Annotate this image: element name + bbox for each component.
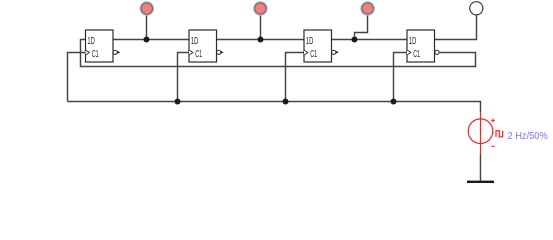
probe P3 lamp (high, red) — [362, 3, 373, 14]
probe P2 lamp (high, red) — [255, 3, 266, 14]
svg-text:1D: 1D — [409, 36, 416, 47]
D flip-flop U4 body — [407, 30, 435, 62]
svg-text:1D: 1D — [87, 36, 94, 47]
node: junction of probe P1 on net Q1 — [144, 37, 150, 43]
svg-text:1D: 1D — [306, 36, 313, 47]
U1 inverted output bubble — [113, 50, 117, 54]
U3 inverted output bubble — [332, 50, 336, 54]
U1 inverted output stub arrow — [117, 51, 120, 54]
node: junction of U3 clock branch on clock bus — [283, 99, 289, 105]
wire: clock branch to U2 C1 input — [178, 53, 190, 102]
wire: clock branch to U3 C1 input — [286, 53, 305, 102]
svg-text:C1: C1 — [195, 49, 202, 60]
U2 inverted output bubble — [217, 50, 221, 54]
U3 clock edge triangle — [304, 50, 308, 55]
U4 clock edge triangle — [407, 50, 411, 55]
wire: net Q3 from U3 Q to U4 D — [332, 39, 408, 41]
U1 clock edge triangle — [86, 50, 90, 55]
wire: net Q2 from U2 Q to U3 D — [217, 39, 305, 41]
wire: net Q1 from U1 Q to U2 D — [113, 39, 189, 41]
probe P1 lamp (high, red) — [141, 3, 152, 14]
wire: clock branch to U4 C1 input — [394, 53, 408, 102]
node: junction of probe P3 on net Q3 — [352, 37, 358, 43]
node: junction of U2 clock branch on clock bus — [175, 99, 181, 105]
wire: clock source to ground — [480, 155, 482, 181]
svg-text:C1: C1 — [413, 49, 420, 60]
probe P3 halo ring — [361, 2, 373, 14]
svg-text:1D: 1D — [191, 36, 198, 47]
clock source V1 internal red lead — [480, 112, 482, 155]
wire: feedback net from U4 inverted output to U1 D input — [81, 40, 476, 67]
wire: clock bottom bus from U1 branch to clock source — [68, 102, 481, 112]
U2 clock edge triangle — [189, 50, 193, 55]
wire: probe P2 riser to net Q2 — [260, 14, 262, 40]
output pin P4 (low, white) — [470, 2, 483, 15]
D flip-flop U3 body — [304, 30, 332, 62]
wire: clock branch to U1 C1 input — [68, 53, 86, 102]
clock source V1 square-wave glyph — [496, 131, 503, 137]
wire: net Q4 from U4 Q up to output pin — [435, 15, 477, 40]
wire: probe P3 riser with jog to net Q3 — [355, 14, 368, 40]
svg-text:C1: C1 — [92, 49, 99, 60]
svg-text:C1: C1 — [310, 49, 317, 60]
probe P2 halo ring — [254, 2, 266, 14]
clock source V1 minus mark — [491, 145, 494, 147]
U3 inverted output stub arrow — [336, 51, 339, 54]
svg-text:2 Hz/50%: 2 Hz/50% — [508, 131, 548, 142]
U2 inverted output stub arrow — [221, 51, 224, 54]
node: junction of U4 clock branch on clock bus — [391, 99, 397, 105]
D flip-flop U2 body — [189, 30, 217, 62]
clock source V1 plus mark — [491, 119, 495, 123]
ground — [467, 181, 494, 183]
wire: probe P1 riser to net Q1 — [146, 14, 148, 40]
probe P1 halo ring — [141, 2, 153, 14]
U4 inverted output bubble — [435, 50, 439, 54]
clock source V1 circle — [468, 119, 493, 144]
node: junction of probe P2 on net Q2 — [258, 37, 264, 43]
D flip-flop U1 body — [86, 30, 114, 62]
